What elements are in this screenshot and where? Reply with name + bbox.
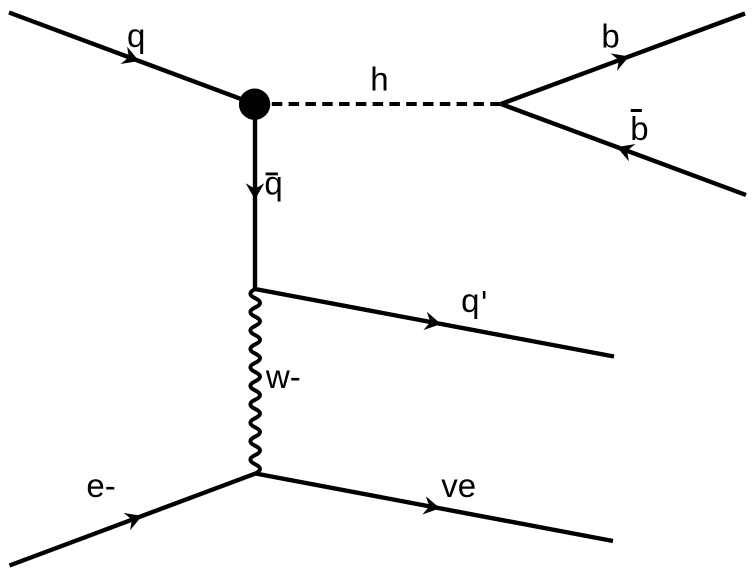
- arrow on e- line: [124, 513, 142, 530]
- svg-text:q: q: [461, 282, 479, 319]
- svg-text:b: b: [630, 110, 648, 147]
- arrow on b-bar line (toward vertex): [617, 144, 635, 161]
- outgoing quark line q-prime: [255, 289, 614, 357]
- svg-text:h: h: [370, 61, 388, 98]
- vertex dot (q q-bar h vertex): [239, 89, 270, 120]
- svg-text:q: q: [127, 17, 145, 54]
- antiquark propagator line q-bar (vertical): [253, 104, 257, 289]
- incoming electron line e-: [10, 474, 256, 566]
- svg-text:e-: e-: [86, 467, 115, 504]
- svg-text:ve: ve: [441, 467, 476, 504]
- arrow on q-bar line (down): [246, 183, 265, 199]
- overbar of b-bar: [631, 109, 642, 112]
- overbar of q-bar: [266, 173, 278, 176]
- arrow on q line: [121, 47, 139, 64]
- arrow on q-prime line: [423, 312, 441, 330]
- svg-text:w-: w-: [265, 358, 301, 395]
- arrow on b line: [611, 53, 629, 71]
- incoming quark line q: [9, 13, 255, 105]
- arrow on ve line: [422, 496, 440, 514]
- svg-text:b: b: [601, 17, 619, 54]
- b-bar antiquark line: [501, 104, 746, 195]
- b quark line: [501, 14, 745, 105]
- higgs dashed propagator h: [255, 102, 501, 106]
- W- boson wavy propagator: [250, 289, 260, 474]
- apostrophe of q-prime: [483, 291, 486, 299]
- outgoing neutrino line ve: [256, 474, 614, 542]
- svg-text:q: q: [264, 165, 282, 202]
